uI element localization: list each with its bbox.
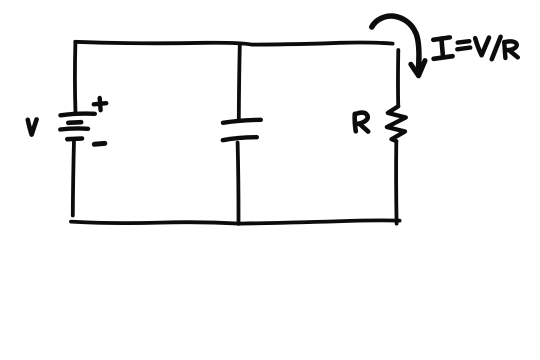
label I = V/R : equals sign [457,41,470,49]
battery V: plate 2 (short) [68,120,81,125]
capacitor C: top plate [223,120,261,123]
resistor R: zigzag body [387,106,406,141]
current arrow: curved hook over top-right corner [372,16,419,69]
wire: capacitor branch, vertical from top bus down to top plate [239,45,240,120]
battery V: plate 3 (long) [60,128,88,129]
capacitor C: bottom plate [223,137,257,140]
label V (source voltage) [28,119,37,134]
battery minus sign [94,141,105,147]
battery plus sign [94,98,106,110]
label R (resistor) [355,113,369,132]
wire: left vertical from top-left corner down to battery + terminal [73,42,77,114]
label I = V/R : slash [492,37,501,59]
wire: bottom horizontal bus [71,220,400,223]
wire: capacitor branch, vertical from bottom plate down to bottom bus [236,143,241,224]
wire: left vertical from battery - terminal down to bottom-left corner [73,140,74,216]
battery V: plate 4 (short, negative) [67,136,82,141]
wire: top horizontal from battery to resistor branch [75,42,392,45]
label I = V/R : letter V [475,38,489,56]
wire: right vertical from below arrow down to resistor top [396,50,400,106]
current arrow: arrowhead pointing down [411,61,425,76]
wire: right vertical from resistor bottom down to bottom-right corner [394,141,398,223]
battery V: plate 1 (long, positive) [61,114,95,116]
label I = V/R : letter I [433,37,452,58]
label I = V/R : letter R [504,41,518,58]
